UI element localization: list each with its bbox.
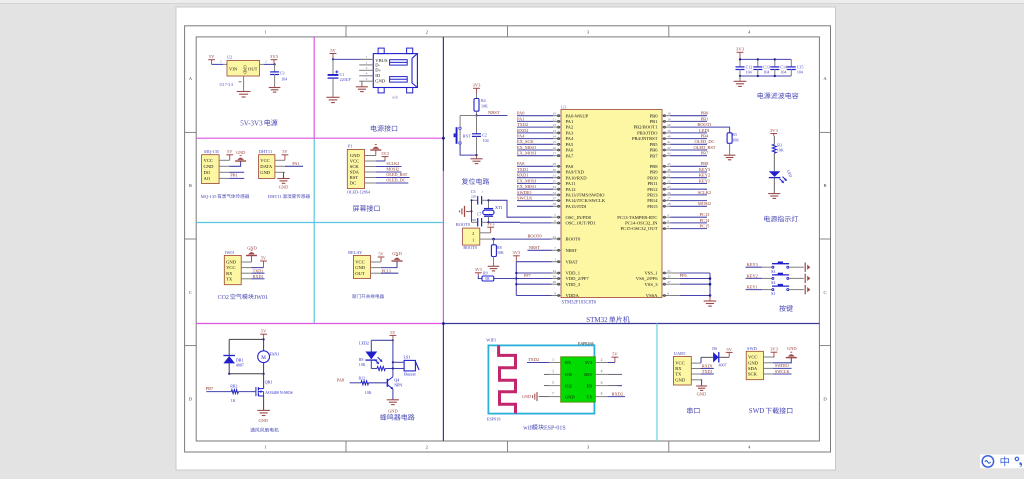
wire ESP IO2 stub [544, 385, 549, 387]
resistor R9 0R [478, 276, 482, 279]
ground (S1) [804, 285, 806, 294]
svg-text:PC13-TAMPER-RTC: PC13-TAMPER-RTC [617, 215, 657, 220]
svg-text:4: 4 [667, 225, 669, 229]
svg-text:VIN: VIN [229, 67, 238, 72]
svg-text:AO3400 N-MOS: AO3400 N-MOS [265, 390, 293, 395]
svg-text:20: 20 [667, 123, 671, 127]
svg-text:SCLK2: SCLK2 [698, 190, 711, 195]
svg-text:1K: 1K [231, 398, 236, 403]
svg-text:30: 30 [553, 168, 557, 172]
svg-text:VSS_1: VSS_1 [644, 271, 658, 276]
svg-text:GND: GND [258, 418, 268, 423]
wire UART RX [701, 368, 714, 370]
svg-text:PB0: PB0 [701, 111, 709, 116]
svg-text:BOOT0: BOOT0 [463, 245, 477, 250]
caption 5V-3V3 power [240, 119, 277, 127]
wire R9 to VDD_2 [494, 278, 517, 280]
svg-text:5: 5 [554, 213, 556, 217]
wire S1 to ground [789, 289, 804, 291]
VSS ground rail [709, 273, 711, 296]
wire U2 GND down [243, 76, 245, 92]
svg-text:TX: TX [675, 372, 682, 377]
svg-text:29: 29 [553, 162, 557, 166]
transistor QR1 AO3400 [263, 374, 265, 389]
svg-text:220UF: 220UF [340, 77, 352, 82]
svg-text:22P: 22P [471, 218, 477, 222]
svg-text:GND: GND [375, 78, 386, 83]
svg-text:EX_MOSI: EX_MOSI [517, 151, 537, 156]
svg-text:44: 44 [553, 235, 557, 239]
svg-text:SDA: SDA [748, 366, 758, 371]
STM32 VSS wires to ground rail [670, 272, 680, 274]
svg-text:10K: 10K [777, 147, 784, 152]
svg-text:RR2: RR2 [230, 383, 237, 388]
section divider horizontal magenta y323.5 left [196, 323, 443, 325]
USB connector J1 [373, 54, 417, 88]
antenna trace [499, 345, 516, 413]
svg-text:2: 2 [472, 231, 474, 236]
wire OLED GND [375, 150, 377, 155]
svg-text:24: 24 [553, 269, 557, 273]
wire D6 to 5V [719, 356, 729, 358]
outer border frame [185, 26, 831, 452]
svg-text:SWDIO: SWDIO [517, 190, 531, 195]
frame column ticks [345, 26, 347, 37]
svg-text:38: 38 [553, 202, 557, 206]
node 5V USB [332, 58, 334, 60]
svg-text:1: 1 [472, 237, 474, 242]
svg-text:104: 104 [281, 76, 287, 81]
wire SWD VCC [773, 356, 774, 358]
svg-text:SWD: SWD [747, 346, 757, 351]
node 3V3 out [274, 63, 276, 65]
svg-text:3V3: 3V3 [473, 83, 482, 88]
svg-text:22: 22 [667, 179, 671, 183]
svg-text:STM32F103C8T6: STM32F103C8T6 [562, 300, 597, 305]
svg-text:R12: R12 [359, 375, 366, 380]
svg-text:OLED_RST: OLED_RST [386, 172, 407, 177]
svg-text:JW01: JW01 [254, 295, 268, 301]
button S1 [772, 285, 789, 287]
svg-text:VCC: VCC [260, 158, 269, 163]
svg-text:OLED_DC: OLED_DC [386, 178, 405, 183]
power flag 3V3 [381, 151, 389, 161]
svg-text:3V3: 3V3 [475, 267, 482, 272]
svg-text:MQ-135: MQ-135 [201, 194, 218, 199]
svg-text:OLED_RST: OLED_RST [694, 145, 716, 150]
svg-text:104: 104 [780, 69, 786, 74]
svg-text:5V: 5V [378, 251, 383, 256]
svg-text:VDD_2/PF7: VDD_2/PF7 [566, 276, 590, 281]
wire ESP RST stub [608, 373, 622, 375]
svg-text:40: 40 [667, 135, 671, 139]
svg-text:GND: GND [697, 392, 707, 397]
svg-text:D6: D6 [712, 346, 717, 351]
resistor R8 pulldown [493, 239, 495, 245]
svg-text:1: 1 [552, 358, 554, 362]
svg-text:PC14: PC14 [700, 218, 711, 223]
svg-text:M: M [261, 355, 266, 361]
pin 2 stub U2 OUT [260, 63, 265, 65]
svg-text:34: 34 [553, 191, 557, 195]
LED LED1 [769, 171, 781, 177]
wire QR1 gate [206, 391, 231, 393]
svg-text:13: 13 [553, 129, 557, 133]
svg-text:5V: 5V [727, 347, 733, 352]
svg-text:RXD1: RXD1 [702, 363, 713, 368]
wire buzzer top [371, 339, 393, 341]
ground (SWD) [786, 352, 797, 357]
svg-text:VCC: VCC [675, 361, 684, 366]
svg-text:PB14: PB14 [647, 198, 658, 203]
svg-text:PA1: PA1 [292, 161, 299, 166]
power flag 3V3 [770, 128, 779, 136]
svg-text:OUT: OUT [355, 271, 365, 276]
svg-text:PA3: PA3 [566, 131, 574, 136]
svg-text:SCK: SCK [748, 372, 758, 377]
svg-text:C5: C5 [471, 189, 476, 194]
svg-text:PB4: PB4 [701, 134, 709, 139]
svg-text:OLED_DC: OLED_DC [694, 139, 714, 144]
svg-text:2: 2 [601, 358, 603, 362]
svg-text:NRST: NRST [488, 110, 500, 115]
svg-text:5: 5 [552, 381, 554, 385]
svg-text:PB8: PB8 [701, 161, 709, 166]
section divider vertical cyan x314 [313, 138, 315, 323]
svg-text:C3: C3 [280, 71, 285, 76]
power flag 5V [208, 54, 215, 64]
svg-text:KEY3: KEY3 [699, 167, 711, 172]
STM32 left pins [552, 115, 562, 117]
svg-text:EX_MOSI: EX_MOSI [517, 178, 537, 183]
svg-text:43: 43 [667, 152, 671, 156]
caption screen connector [353, 205, 380, 211]
section divider vertical navy x443 top [442, 37, 444, 171]
power flag 3V3 [475, 267, 482, 275]
svg-text:10K: 10K [732, 137, 739, 142]
transistor Q4 NPN [386, 379, 388, 387]
svg-text:BOOT0: BOOT0 [528, 234, 543, 239]
svg-text:KEY2: KEY2 [747, 273, 758, 278]
svg-text:DATA: DATA [260, 164, 273, 169]
svg-text:PA8: PA8 [517, 161, 525, 166]
module ESP01S outline [488, 345, 594, 413]
LED LED2 [370, 340, 372, 351]
ground (filter) [734, 81, 747, 86]
svg-text:GND: GND [279, 185, 289, 190]
svg-text:VDD_1: VDD_1 [566, 271, 581, 276]
svg-text:14: 14 [553, 135, 557, 139]
svg-text:S3: S3 [771, 269, 775, 274]
wire KEY3 [746, 266, 763, 268]
svg-text:104: 104 [763, 69, 769, 74]
svg-text:VSSA: VSSA [646, 293, 658, 298]
filter bottom rail [740, 75, 791, 77]
buzzer LS1 [393, 361, 404, 363]
power flag 3V3 [513, 250, 521, 262]
svg-text:4: 4 [601, 370, 603, 374]
svg-text:48: 48 [553, 280, 557, 284]
svg-text:RELAY: RELAY [348, 250, 363, 255]
node NRST [475, 114, 477, 116]
svg-text:GND: GND [787, 346, 797, 351]
section divider vertical magenta x443 middle [442, 171, 444, 324]
wire QR1 source to ground [263, 396, 265, 410]
svg-text:36: 36 [553, 274, 557, 278]
svg-text:S1: S1 [771, 291, 775, 296]
caption power LED [764, 216, 798, 222]
caption DHT11 sensor [268, 194, 310, 199]
svg-text:U2: U2 [227, 55, 232, 60]
caption power connector [371, 125, 397, 131]
svg-text:DHT11: DHT11 [268, 194, 283, 199]
power flag 5V [390, 330, 397, 341]
wire filter to ground [739, 76, 741, 81]
svg-text:5V: 5V [209, 54, 215, 59]
svg-text:PC14-OSC32_IN: PC14-OSC32_IN [625, 221, 658, 226]
wire jumper pin1 to chip BOOT0 [480, 238, 494, 240]
svg-text:37: 37 [553, 197, 557, 201]
svg-text:PB5: PB5 [650, 142, 659, 147]
wire OSC_IN [489, 200, 552, 217]
IME chinese mode icon [1001, 456, 1009, 466]
ground (reset) [470, 159, 482, 164]
wire SWD SDA [773, 367, 792, 369]
svg-text:TXD1: TXD1 [517, 167, 528, 172]
svg-text:ESP-01S: ESP-01S [544, 425, 566, 431]
svg-text:WIFI: WIFI [486, 337, 496, 342]
wire OLED SDA [376, 171, 402, 173]
svg-text:22P: 22P [471, 195, 477, 199]
power flag 3V3 [473, 83, 482, 93]
svg-text:P1: P1 [348, 144, 352, 149]
capacitor C14 [774, 59, 776, 67]
button RST [456, 127, 458, 144]
svg-text:QR1: QR1 [265, 380, 273, 385]
svg-text:VSS_3: VSS_3 [644, 282, 658, 287]
svg-text:TX: TX [226, 276, 233, 281]
svg-text:3: 3 [667, 219, 669, 223]
ground (fan) [257, 410, 270, 415]
capacitor C1 electrolytic [332, 59, 334, 74]
svg-text:GND: GND [675, 377, 686, 382]
svg-text:PB12: PB12 [647, 187, 658, 192]
svg-text:PA7: PA7 [566, 153, 574, 158]
svg-text:IO2: IO2 [565, 383, 572, 388]
ground (OLED) [370, 145, 381, 150]
button S3 [772, 263, 789, 265]
ground (UART) [696, 386, 707, 390]
svg-text:25: 25 [667, 185, 671, 189]
power flag 5V [260, 255, 267, 267]
svg-text:19: 19 [667, 117, 671, 121]
svg-text:RXD2: RXD2 [517, 128, 528, 133]
ground (DHT11) [277, 179, 289, 184]
svg-text:ID: ID [375, 73, 381, 78]
svg-text:3V3: 3V3 [487, 222, 495, 227]
svg-text:TX: TX [586, 394, 593, 399]
svg-text:3V3: 3V3 [736, 47, 745, 52]
svg-text:RX: RX [675, 366, 682, 371]
ground (relay) [392, 256, 403, 261]
wire MQ AO [230, 177, 245, 179]
svg-text:STM32: STM32 [586, 316, 608, 324]
svg-text:GND: GND [260, 170, 271, 175]
svg-text:PB10: PB10 [647, 175, 658, 180]
svg-text:5V: 5V [330, 48, 336, 53]
wire SWD GND [773, 358, 792, 363]
section divider vertical magenta x314 rowA [313, 37, 315, 138]
svg-text:17: 17 [553, 152, 557, 156]
ground (USB) [356, 87, 368, 92]
svg-text:39: 39 [667, 129, 671, 133]
svg-text:LS1: LS1 [404, 355, 411, 360]
svg-text:35: 35 [667, 274, 671, 278]
svg-text:EX_MISO: EX_MISO [517, 184, 536, 189]
svg-text:SWD: SWD [749, 407, 765, 415]
white sheet [176, 7, 836, 470]
wire ESP GND [539, 396, 550, 398]
svg-text:GND: GND [748, 360, 759, 365]
svg-text:SCLK2: SCLK2 [386, 161, 399, 166]
svg-text:wifi: wifi [523, 424, 533, 431]
wire ESP 3V3 [608, 362, 615, 364]
resistor R8 (buzzer) [370, 360, 372, 368]
svg-text:AO: AO [204, 176, 211, 181]
svg-text:XT1: XT1 [495, 205, 503, 210]
svg-text:B: B [823, 183, 826, 188]
svg-text:PB9: PB9 [650, 170, 659, 175]
svg-text:PF7: PF7 [524, 273, 531, 278]
crystal XT1 [488, 200, 490, 208]
svg-text:33: 33 [553, 185, 557, 189]
svg-text:3V3: 3V3 [270, 54, 279, 59]
svg-text:IO0: IO0 [565, 372, 573, 377]
wire ESP RX [527, 362, 549, 364]
wire 5V to U2 VIN [212, 63, 223, 65]
svg-text:GND: GND [388, 408, 398, 413]
ground sideways (crystal) [466, 210, 472, 212]
IME logo icon [982, 456, 993, 467]
svg-text:B: B [189, 183, 192, 188]
svg-text:15: 15 [553, 140, 557, 144]
svg-text:PB11: PB11 [647, 181, 658, 186]
regulator U2 [227, 61, 260, 77]
svg-text:RST: RST [350, 175, 359, 180]
ground (regulator) [237, 92, 251, 98]
caption reset circuit [462, 178, 490, 184]
resistor R12 [361, 381, 369, 385]
inner border frame [196, 37, 819, 441]
svg-text:11: 11 [553, 117, 557, 121]
svg-text:NRST: NRST [529, 245, 541, 250]
svg-text:C: C [189, 290, 192, 295]
svg-text:PB8: PB8 [650, 164, 659, 169]
svg-text:5V-3V3: 5V-3V3 [240, 119, 263, 127]
svg-text:5V: 5V [261, 329, 267, 334]
svg-text:4007: 4007 [719, 363, 727, 368]
caption filter caps [758, 92, 799, 99]
svg-text:R9: R9 [483, 271, 488, 276]
junction dot divider [442, 322, 445, 325]
svg-text:26: 26 [667, 191, 671, 195]
svg-text:R4: R4 [481, 98, 486, 103]
svg-text:104: 104 [483, 138, 489, 143]
wire NRST node to button branch [460, 115, 476, 117]
svg-text:GND: GND [243, 65, 247, 73]
svg-text:RX: RX [565, 360, 572, 365]
buzzer rail [392, 340, 394, 377]
caption keys [779, 305, 793, 312]
svg-text:PA5: PA5 [566, 142, 574, 147]
caption STM32 MCU [586, 316, 629, 324]
svg-text:PA10/RXD: PA10/RXD [566, 175, 588, 180]
svg-text:VDD_3: VDD_3 [566, 282, 581, 287]
svg-text:OSC_IN/PD0: OSC_IN/PD0 [566, 215, 592, 220]
caption relay [352, 294, 384, 298]
wire to ground (reset) [476, 155, 478, 159]
svg-text:VCC: VCC [748, 355, 757, 360]
wire USB GND pin to ground [361, 81, 363, 87]
power flag 5V [226, 149, 233, 160]
svg-text:KEY1: KEY1 [699, 178, 710, 183]
svg-text:VCC: VCC [204, 158, 213, 163]
svg-text:5V: 5V [612, 352, 618, 357]
svg-text:OLED-12864: OLED-12864 [347, 189, 371, 194]
svg-text:27: 27 [667, 197, 671, 201]
svg-text:GND: GND [204, 164, 215, 169]
svg-text:RXD2: RXD2 [612, 391, 623, 396]
capacitor C2 [476, 116, 478, 134]
svg-text:5V: 5V [282, 149, 288, 154]
wire BOOT1 to R5 [707, 127, 730, 133]
caption fan [250, 428, 279, 432]
svg-text:23: 23 [667, 269, 671, 273]
wire OLED VCC [376, 160, 385, 162]
svg-text:7: 7 [554, 246, 556, 250]
node BOOT0 [492, 238, 495, 241]
svg-text:PB2/BOOT1: PB2/BOOT1 [634, 125, 659, 130]
svg-text:TXD1: TXD1 [253, 268, 264, 273]
svg-text:TXD2: TXD2 [517, 122, 528, 127]
svg-text:VSS_2/PF6: VSS_2/PF6 [636, 276, 658, 281]
wire C3 to ground [274, 74, 276, 87]
svg-text:EN: EN [586, 383, 593, 388]
svg-text:GND: GND [236, 150, 246, 155]
svg-text:PB7: PB7 [650, 153, 659, 158]
svg-text:usb: usb [392, 94, 398, 99]
button S2 [772, 274, 789, 276]
wire LED1 to ground [773, 178, 775, 194]
wire OLED RST [376, 177, 410, 179]
svg-text:MQ-135: MQ-135 [204, 149, 220, 154]
svg-text:3V3: 3V3 [513, 250, 521, 255]
VDD rail [515, 262, 517, 296]
STM32 right net wires [670, 115, 707, 117]
wire VDD_3 [516, 283, 552, 285]
svg-text:EX_MISO: EX_MISO [517, 145, 536, 150]
caption MQ-135 sensor [201, 194, 250, 199]
svg-text:SWCLK: SWCLK [517, 196, 533, 201]
wire UART TX [701, 373, 714, 375]
ground (C1) [326, 97, 339, 102]
wire OSC_OUT [489, 221, 521, 223]
ground (S2) [804, 274, 806, 283]
caption buzzer [380, 414, 415, 420]
svg-text:PB13: PB13 [647, 193, 658, 198]
svg-text:10K: 10K [481, 103, 488, 108]
svg-text:NPN: NPN [394, 383, 402, 388]
